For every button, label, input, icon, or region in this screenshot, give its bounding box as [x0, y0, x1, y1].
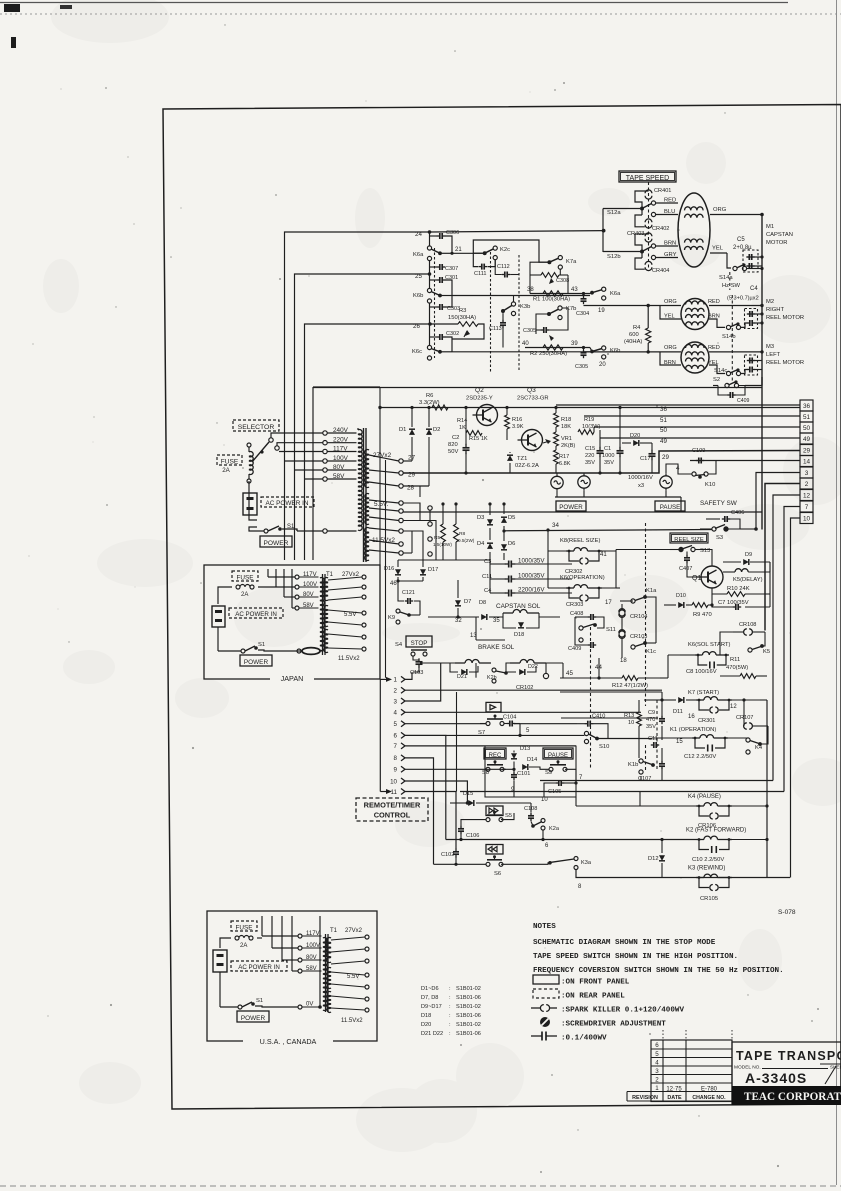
svg-text:150(30HA): 150(30HA): [448, 315, 476, 321]
svg-text:D3: D3: [477, 515, 484, 521]
svg-text:R9 470: R9 470: [693, 612, 712, 618]
capstan solenoid coil: [503, 612, 513, 614]
long rail 780: [540, 780, 773, 782]
svg-text:2A: 2A: [240, 943, 247, 949]
S2 on long rail: [713, 385, 718, 387]
capacitor C301: [430, 279, 438, 281]
PAUSE boxed label: [543, 748, 573, 759]
44 vertical: [598, 658, 600, 678]
K2c loop wires: [473, 240, 547, 262]
svg-text:1: 1: [394, 677, 398, 684]
svg-text:2: 2: [394, 688, 398, 695]
capacitor C111: [479, 266, 482, 268]
svg-text:11: 11: [391, 789, 398, 796]
wire 14 row: [690, 460, 800, 462]
resistor R15 1K: [466, 431, 482, 436]
svg-text:S1B01-02: S1B01-02: [456, 986, 481, 992]
svg-text:C410: C410: [592, 714, 605, 720]
rail 512 long: [403, 511, 762, 513]
svg-text:TEAC CORPORATIO: TEAC CORPORATIO: [744, 1091, 841, 1103]
pin2 wire extension: [560, 691, 662, 693]
USA secondary taps: [365, 935, 369, 939]
svg-text:R8: R8: [459, 531, 466, 537]
svg-text:D20: D20: [421, 1022, 431, 1028]
diode D7: [455, 600, 461, 606]
C5 capacitors: [746, 256, 749, 258]
page edge artifacts: [0, 2, 788, 4]
JAPAN fuse symbol: [236, 585, 240, 589]
pin box 29: [800, 445, 813, 456]
pin 10 wire down to D15: [405, 781, 467, 803]
wires Q1 area: [712, 588, 727, 594]
svg-text:S1: S1: [256, 998, 263, 1004]
svg-text:D9: D9: [745, 552, 752, 558]
svg-text:39: 39: [571, 341, 578, 347]
svg-text:46: 46: [390, 581, 397, 587]
svg-text:6: 6: [655, 1042, 659, 1049]
svg-text:02Z-6.2A: 02Z-6.2A: [515, 463, 539, 469]
svg-text:K6(OPERATION): K6(OPERATION): [560, 575, 605, 581]
rail 678 to right: [660, 677, 668, 679]
wire pin 10 drop: [791, 518, 801, 878]
svg-text:K2a: K2a: [549, 826, 560, 832]
svg-text:C306: C306: [446, 230, 459, 236]
svg-text:14: 14: [803, 459, 811, 466]
svg-text:C408: C408: [570, 611, 583, 617]
switch S14a: [733, 266, 737, 270]
REEL SIZE boxed label: [670, 533, 708, 543]
svg-text:D18: D18: [514, 632, 524, 638]
POWER lamp label: [556, 501, 586, 511]
svg-text:M1: M1: [766, 224, 774, 230]
Q1 base wire left: [687, 563, 701, 577]
spark killer CR402: [645, 219, 652, 222]
svg-text:2SC733-GR: 2SC733-GR: [517, 396, 549, 402]
svg-text:MOTOR: MOTOR: [766, 240, 787, 246]
svg-text:45: 45: [566, 670, 573, 677]
USA AC plug: [213, 950, 227, 972]
5.5V tap wires: [403, 503, 420, 512]
svg-text:S1B01-02: S1B01-02: [456, 1004, 481, 1010]
Hz SW dashed line lower: [731, 295, 733, 382]
svg-text:35V: 35V: [646, 724, 656, 730]
svg-text:D17: D17: [428, 567, 438, 573]
svg-text:TZ1: TZ1: [517, 456, 527, 462]
wires K3 relay: [732, 877, 767, 879]
M3 YEL wire to S14c: [709, 365, 725, 374]
svg-text:POWER: POWER: [559, 504, 583, 511]
svg-text:D10: D10: [676, 593, 686, 599]
svg-text:CHANGE NO.: CHANGE NO.: [692, 1095, 726, 1101]
svg-text:TAPE TRANSPOR: TAPE TRANSPOR: [736, 1049, 841, 1063]
wire pin 12 drop: [773, 495, 800, 781]
JAPAN wires: [218, 587, 232, 604]
svg-text:RED: RED: [708, 299, 720, 305]
svg-text:REEL SIZE: REEL SIZE: [674, 537, 704, 543]
svg-text:D2: D2: [433, 427, 440, 433]
svg-text:C406: C406: [731, 510, 744, 516]
wires from fuse to plug and switch: [249, 481, 257, 520]
wire k1 row to bus: [767, 725, 769, 727]
svg-text:C305: C305: [575, 364, 588, 370]
spark killer CR404: [645, 261, 652, 264]
svg-text:36: 36: [803, 403, 811, 410]
resistor R12 47(1/2W): [622, 676, 638, 681]
svg-text:FUSE: FUSE: [236, 575, 253, 582]
svg-text:S11: S11: [606, 627, 616, 633]
USA CANADA sub-circuit box: [207, 911, 377, 1041]
svg-text:C9: C9: [648, 710, 655, 716]
K3a to rail 8: [576, 870, 790, 878]
svg-text:C121: C121: [402, 590, 415, 596]
pin 6 wire down to S5 row: [405, 735, 446, 839]
pin box 12: [800, 490, 813, 501]
wire from tap to D16 D17 column: [403, 503, 420, 520]
svg-text:PAUSE: PAUSE: [660, 504, 681, 511]
svg-text:C7 100/35V: C7 100/35V: [718, 600, 749, 606]
right vertical bus lower: [761, 377, 763, 530]
K6 column dashed link: [434, 248, 436, 358]
svg-text:7: 7: [394, 743, 398, 750]
wire C104 to C410: [514, 723, 577, 725]
wire 21 to K2c: [452, 252, 483, 254]
wires K6 sol start: [680, 654, 695, 656]
svg-text:C8 100/16V: C8 100/16V: [686, 669, 717, 675]
svg-text:K4 (PAUSE): K4 (PAUSE): [688, 794, 721, 800]
K7a side wires: [529, 275, 531, 294]
svg-text:PAUSE: PAUSE: [548, 753, 568, 759]
svg-text:11.5Vx2: 11.5Vx2: [338, 656, 360, 662]
K4 feed from rail: [639, 792, 641, 807]
svg-text:35: 35: [493, 618, 500, 624]
AC POWER IN label main: [261, 497, 314, 507]
svg-text:LEFT: LEFT: [766, 352, 781, 358]
svg-text:D21 D22: D21 D22: [421, 1031, 443, 1037]
svg-text:R15 1K: R15 1K: [469, 436, 488, 442]
svg-text:K3b: K3b: [520, 304, 530, 310]
pin 8 wire down to S6 row: [405, 758, 434, 864]
svg-text:RED: RED: [708, 345, 720, 351]
svg-text:YEL: YEL: [712, 246, 724, 252]
svg-text:RIGHT: RIGHT: [766, 307, 784, 313]
K1b wires: [638, 726, 640, 758]
svg-text:6.8K: 6.8K: [559, 461, 571, 467]
main transformer windings: [358, 430, 362, 435]
svg-text:C304: C304: [576, 311, 589, 317]
svg-text:CR103: CR103: [630, 634, 647, 640]
SELECTOR label: [233, 420, 279, 431]
svg-text:20: 20: [599, 362, 606, 368]
svg-text:K2c: K2c: [500, 247, 510, 253]
wire join under R5 R8: [398, 559, 490, 561]
svg-text:S4: S4: [395, 642, 403, 648]
rewind button box: [486, 845, 503, 855]
svg-text:K6(SOL START): K6(SOL START): [688, 642, 730, 648]
legend capacitor symbol: [531, 1035, 542, 1037]
svg-text:T1: T1: [330, 928, 338, 934]
svg-text:R3: R3: [459, 308, 466, 314]
svg-text:D7, D8: D7, D8: [421, 995, 438, 1001]
svg-text:1000: 1000: [602, 453, 614, 459]
JAPAN POWER S1: [241, 649, 245, 653]
legend front panel symbol: [533, 975, 559, 984]
CR108 left wire: [720, 632, 733, 655]
svg-text:29: 29: [803, 448, 811, 455]
svg-text:12: 12: [730, 704, 737, 710]
svg-text:C106: C106: [466, 833, 479, 839]
diode D22: [519, 669, 525, 675]
svg-text:820: 820: [448, 442, 458, 448]
K7b bracket and C305: [536, 314, 549, 326]
svg-text:S14c: S14c: [714, 368, 727, 374]
diode D16: [395, 569, 401, 575]
USA wires: [220, 938, 231, 948]
svg-text:D7: D7: [464, 599, 471, 605]
S12b bracket wires: [635, 234, 649, 258]
svg-text:5.5V: 5.5V: [344, 612, 356, 618]
svg-text:D18: D18: [421, 1013, 431, 1019]
svg-text:1000/35V: 1000/35V: [518, 558, 545, 565]
svg-text:K8(REEL SIZE): K8(REEL SIZE): [560, 538, 600, 544]
svg-text:26: 26: [413, 323, 420, 330]
JAPAN secondary taps: [362, 575, 366, 579]
svg-text:NOTES: NOTES: [533, 923, 556, 931]
C4 capacitors dashed box M2: [745, 309, 758, 329]
svg-text:M3: M3: [766, 344, 774, 350]
diode D18: [518, 622, 524, 628]
svg-text:50V: 50V: [448, 449, 458, 455]
M2 BRN wire to S14b: [709, 319, 725, 327]
svg-text:51: 51: [803, 414, 811, 421]
K7 row left wire: [644, 699, 660, 701]
transformer tap wires to rectifier: [403, 531, 423, 560]
svg-text:S-078: S-078: [778, 909, 796, 916]
svg-text:K7 (START): K7 (START): [688, 690, 719, 696]
svg-text:S6: S6: [494, 871, 501, 877]
svg-text:C15: C15: [585, 446, 595, 452]
pin 3 wire to brake row: [405, 663, 441, 701]
svg-text:REEL MOTOR: REEL MOTOR: [766, 360, 804, 366]
wire pin 3 drop: [756, 473, 800, 530]
svg-text:U.S.A. , CANADA: U.S.A. , CANADA: [260, 1037, 317, 1046]
wire pin 2 drop: [765, 484, 800, 631]
svg-text:18: 18: [620, 658, 627, 664]
TAPE SPEED label: [619, 171, 676, 182]
C101 bottom to 9 rail: [513, 781, 515, 798]
wire 41 to K6 right: [602, 551, 616, 588]
diode D1: [409, 429, 415, 435]
svg-text:K10: K10: [705, 482, 715, 488]
power box top long wire: [313, 387, 762, 389]
K1 operation row rail: [597, 738, 652, 740]
svg-text:R11: R11: [730, 657, 740, 663]
svg-text:K1c: K1c: [646, 649, 656, 655]
svg-text:C1: C1: [604, 446, 611, 452]
svg-text:600: 600: [629, 332, 639, 338]
svg-text::ON REAR PANEL: :ON REAR PANEL: [561, 993, 625, 1001]
svg-text:2200/16V: 2200/16V: [518, 587, 545, 594]
wires transformer secondary to taps: [369, 455, 399, 461]
legend spark killer symbol: [531, 1007, 541, 1009]
svg-text:3: 3: [394, 698, 398, 705]
svg-text:C101: C101: [517, 771, 530, 777]
switch S14c: [726, 371, 730, 375]
svg-text:6: 6: [394, 733, 398, 740]
svg-text:10: 10: [803, 516, 811, 523]
wire 17 row to K1a: [616, 587, 620, 589]
svg-text:4: 4: [655, 1060, 659, 1067]
svg-text:CONTROL: CONTROL: [374, 811, 411, 820]
svg-text:32: 32: [455, 618, 462, 624]
svg-text:19: 19: [598, 308, 605, 314]
capacitor C307: [430, 266, 438, 268]
svg-text:K9: K9: [388, 615, 395, 621]
svg-text:STOP: STOP: [411, 640, 428, 647]
svg-text:K6a: K6a: [610, 291, 621, 297]
svg-text:REMOTE/TIMER: REMOTE/TIMER: [364, 801, 421, 810]
capacitor C407: [686, 555, 688, 558]
svg-text:4: 4: [394, 710, 398, 717]
svg-text:VR1: VR1: [561, 436, 572, 442]
svg-text:K1b: K1b: [628, 762, 638, 768]
svg-text:S14a: S14a: [719, 275, 733, 281]
svg-text:C308: C308: [556, 278, 569, 284]
pin box 51: [800, 411, 813, 422]
brake sol row wires: [420, 662, 455, 664]
svg-text:R12 47(1/2W): R12 47(1/2W): [612, 683, 648, 689]
S6 row wires: [434, 863, 487, 865]
USA transformer windings: [323, 938, 327, 943]
svg-text:K6a: K6a: [413, 252, 424, 258]
legend rear panel symbol: [533, 989, 559, 998]
capacitor C103: [418, 658, 420, 662]
S8 S9 wires: [513, 751, 515, 753]
svg-text:27Vx2: 27Vx2: [345, 928, 363, 934]
svg-text:38: 38: [527, 287, 534, 293]
svg-text:35V: 35V: [585, 460, 595, 466]
spark killer CR403: [645, 233, 652, 236]
svg-text:S1B01-06: S1B01-06: [456, 995, 481, 1001]
svg-text:M2: M2: [766, 299, 774, 305]
svg-text:S1B01-06: S1B01-06: [456, 1013, 481, 1019]
svg-text:17: 17: [605, 600, 612, 606]
pin box 3: [800, 467, 813, 478]
wires S12 contacts to capstan motor: [656, 202, 678, 204]
svg-text:CR303: CR303: [566, 602, 583, 608]
svg-text:12·75: 12·75: [666, 1087, 682, 1093]
svg-text:S12b: S12b: [607, 254, 621, 260]
svg-text:C409: C409: [737, 398, 750, 404]
svg-text:S3: S3: [716, 535, 723, 541]
safety row left wire: [700, 529, 712, 531]
USA vertical feeds: [261, 916, 263, 936]
wires K4 relay: [576, 805, 696, 807]
svg-text:AC POWER IN: AC POWER IN: [266, 500, 309, 507]
wires K7: [732, 699, 760, 701]
capstan motor M1: [678, 193, 710, 267]
svg-text:C4: C4: [750, 286, 758, 292]
svg-text::0.1/400WV: :0.1/400WV: [561, 1035, 607, 1043]
svg-text:41: 41: [600, 552, 607, 558]
pin 1 wire to C103: [405, 672, 412, 679]
svg-text:3.3(2W): 3.3(2W): [419, 400, 440, 406]
left terminals column: [428, 506, 432, 510]
title block revision table: [651, 1040, 732, 1102]
rail 6 row: [446, 839, 543, 841]
S3 bracket wires: [706, 518, 720, 520]
power box left vertical wires: [379, 388, 381, 678]
svg-text:ORG: ORG: [713, 207, 727, 213]
svg-text:S1: S1: [258, 642, 265, 648]
CR108 K5 right wires: [764, 631, 766, 633]
svg-text:K3a: K3a: [581, 860, 592, 866]
svg-text:CR107: CR107: [736, 715, 753, 721]
resistor R2 250(30HA): [543, 345, 563, 350]
diode D2: [426, 429, 432, 435]
pin box 7: [800, 501, 813, 512]
selector tap connection wires: [271, 433, 323, 438]
POWER label main: [260, 536, 292, 547]
capacitor C302: [430, 336, 438, 338]
motor M3 left reel: [681, 342, 709, 373]
svg-text:C112: C112: [497, 264, 510, 270]
line under REC area: [496, 805, 498, 807]
svg-text:51: 51: [660, 417, 667, 424]
pin box 10: [800, 513, 813, 524]
switch S13: [679, 547, 683, 551]
svg-text:S1B01-02: S1B01-02: [456, 1022, 481, 1028]
svg-text:R17: R17: [559, 454, 569, 460]
dashed pair K2c: [490, 252, 492, 372]
resistor R1 100(30HA): [543, 291, 563, 296]
brake solenoid coil 2: [510, 662, 520, 664]
svg-text:FUSE: FUSE: [221, 459, 239, 466]
svg-text:3.9K: 3.9K: [512, 424, 524, 430]
wire K6c to right: [452, 351, 590, 353]
svg-text:S12a: S12a: [607, 210, 621, 216]
svg-text:D21: D21: [457, 674, 467, 680]
legend screwdriver adjustment symbol: [540, 1017, 550, 1027]
svg-text:24: 24: [415, 231, 422, 238]
svg-text:K1a: K1a: [646, 588, 657, 594]
svg-text:D1~D6: D1~D6: [421, 986, 439, 992]
svg-text:C111: C111: [474, 271, 487, 277]
PAUSE lamp label: [655, 501, 685, 511]
vertical 456 drop: [456, 692, 458, 792]
wire 13 rail: [475, 617, 477, 640]
svg-text:CAPSTAN: CAPSTAN: [766, 232, 793, 238]
title block name area: [732, 1042, 841, 1104]
wires K1: [652, 737, 692, 739]
K5 delay right bus: [769, 562, 771, 607]
svg-text:K2 (FAST FORWARD): K2 (FAST FORWARD): [686, 828, 746, 834]
pin 2 wire long: [405, 689, 662, 691]
JAPAN FUSE label: [232, 571, 258, 581]
svg-text:POWER: POWER: [241, 1015, 266, 1022]
S7 wires: [480, 723, 486, 725]
TEAC CORPORATION bar: [732, 1086, 841, 1105]
wire 34 rail long: [504, 530, 712, 531]
svg-text:S2: S2: [713, 377, 720, 383]
svg-text:S5: S5: [505, 813, 512, 819]
relay logic bottom border: [561, 717, 658, 719]
S5 row wires: [461, 820, 486, 826]
diode D17: [420, 569, 426, 575]
JAPAN vertical feeds: [267, 569, 269, 577]
capacitor C409 below S2: [727, 394, 730, 396]
svg-text:C307: C307: [445, 266, 458, 272]
JAPAN ferrite bead: [302, 648, 320, 655]
